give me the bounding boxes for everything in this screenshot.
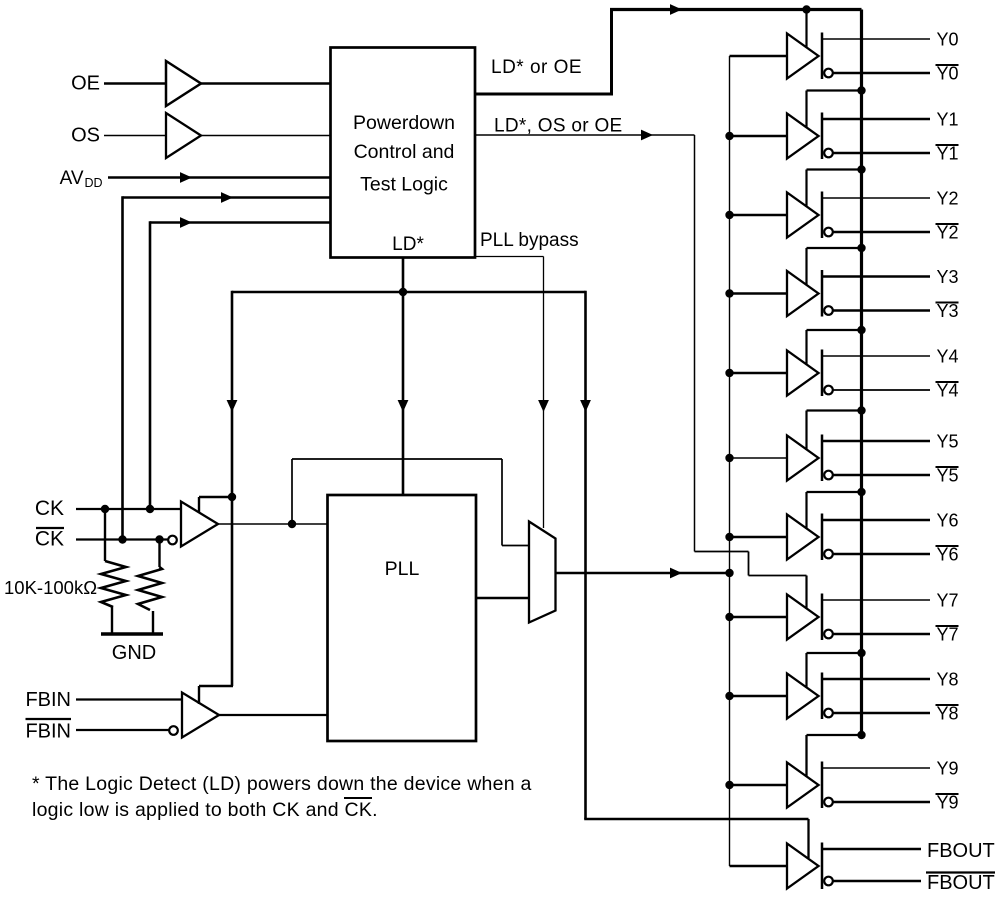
wire FBIN input: [76, 698, 182, 700]
junction mux output on distribution line: [725, 569, 733, 577]
wire LD* or OE from block to top rail: [474, 93, 612, 96]
junction LD* node: [399, 288, 407, 296]
junction Y6 enable on bus: [857, 488, 865, 496]
svg-text:Y0: Y0: [937, 64, 959, 84]
wire enable bus vertical LD* or OE: [860, 10, 863, 736]
output bar of Y1 driver: [821, 113, 824, 160]
output bar of Y6 driver: [821, 514, 824, 561]
wire Y6 complement output: [833, 553, 930, 556]
svg-text:PLL: PLL: [385, 558, 420, 580]
svg-text:Y2: Y2: [937, 189, 959, 209]
wire PLL bypass clock path to mux: [291, 459, 293, 524]
svg-text:Y0: Y0: [937, 30, 959, 50]
junction Y3 enable on bus: [857, 244, 865, 252]
wire Y1 complement output: [833, 152, 930, 155]
wire vertical from CK line up to Powerdown input: [149, 221, 152, 509]
junction Y1 input on distribution line: [725, 132, 733, 140]
svg-text:Y3: Y3: [937, 301, 959, 321]
svg-text:DD: DD: [85, 176, 103, 190]
wire OE input: [104, 82, 166, 85]
svg-text:FBIN: FBIN: [25, 689, 71, 711]
wire PLL output to mux: [476, 597, 529, 600]
svg-text:FBOUT: FBOUT: [927, 872, 995, 894]
wire Y8 enable elbow to bus: [805, 653, 807, 688]
svg-text:Powerdown: Powerdown: [353, 112, 455, 134]
wire Y9 input from distribution: [730, 784, 788, 787]
junction Y6 input on distribution line: [725, 533, 733, 541]
wire LD*, OS or OE vertical drop: [694, 135, 696, 552]
svg-text:FBIN: FBIN: [25, 721, 71, 743]
wire CK-sense line to Powerdown block: [150, 221, 330, 224]
junction Y3 input on distribution line: [725, 289, 733, 297]
junction Y7 input on distribution line: [725, 613, 733, 621]
wire Y2 input from distribution: [730, 214, 788, 217]
wire Y0 enable from top rail: [805, 10, 807, 49]
overbar for FBINbar: [26, 718, 72, 720]
wire Y9 enable from bus end: [807, 734, 863, 736]
svg-text:Y5: Y5: [937, 432, 959, 452]
bubble on Y1 complement output: [824, 149, 833, 158]
resistor R1 10K-100k pulldown on CK: [104, 509, 106, 561]
wire Y9 true output: [822, 767, 930, 769]
svg-text:Y9: Y9: [937, 759, 959, 779]
wire Y4 true output: [822, 355, 930, 357]
junction Y2 enable on bus: [857, 165, 865, 173]
wire Y3 complement output: [833, 309, 930, 312]
wire LD*, OS or OE from block: [474, 134, 695, 136]
junction CKbar to pulldown resistor R2: [155, 535, 163, 543]
svg-text:GND: GND: [112, 642, 156, 664]
wire Y2 complement output: [833, 231, 930, 234]
wire LD* left branch down to CK and FBIN buffers: [231, 291, 234, 686]
buffer Y5 output driver: [787, 436, 819, 481]
svg-text:logic low is applied to both C: logic low is applied to both CK and CK.: [32, 799, 378, 821]
svg-text:10K-100kΩ: 10K-100kΩ: [4, 577, 97, 598]
buffer FBIN differential input buffer: [182, 693, 219, 738]
wire Y5 input from distribution: [730, 457, 788, 459]
wire FBOUT input from distribution: [730, 865, 788, 868]
resistor R2 10K-100k pulldown on CKbar: [158, 540, 160, 568]
wire Y0 true output: [822, 38, 930, 40]
junction CK clock to bypass path: [288, 520, 296, 528]
wire Y4 complement output: [833, 389, 930, 391]
wire PLL bypass vertical to mux select: [543, 257, 545, 529]
svg-text:* The Logic Detect (LD) powers: * The Logic Detect (LD) powers down the …: [32, 773, 532, 795]
wire LD*, OS or OE jog toward Y7 enable: [695, 551, 749, 553]
wire clock distribution vertical: [729, 56, 731, 866]
wire PLL bypass from block: [474, 256, 544, 258]
svg-text:Y7: Y7: [937, 591, 959, 611]
junction Y4 input on distribution line: [725, 369, 733, 377]
svg-text:Y1: Y1: [937, 110, 959, 130]
bubble on Y0 complement output: [824, 69, 833, 78]
output bar of Y7 driver: [821, 594, 824, 641]
output bar of Y0 driver: [821, 33, 824, 80]
wire Y1 enable elbow to bus: [805, 91, 807, 129]
wire FBIN buffer enable elbow to LD*: [198, 686, 200, 704]
wire Y5 complement output: [833, 474, 930, 477]
junction Y5 enable on bus: [857, 406, 865, 414]
bubble on FBINbar input: [169, 726, 178, 735]
svg-text:Y9: Y9: [937, 793, 959, 813]
wire AVDD to Powerdown block: [108, 176, 330, 179]
svg-text:Y6: Y6: [937, 511, 959, 531]
buffer Y2 output driver: [787, 193, 819, 238]
junction Y1 enable on bus: [857, 86, 865, 94]
wire Y7 enable from LD*, OS or OE: [805, 576, 807, 610]
junction top rail to Y0 enable: [802, 5, 810, 13]
wire Y8 input from distribution: [730, 695, 788, 698]
output bar of Y3 driver: [821, 270, 824, 317]
wire OE buffer output to Powerdown block: [201, 82, 330, 85]
wire mux output to clock distribution: [556, 572, 730, 575]
svg-text:LD*: LD*: [392, 234, 424, 255]
wire Y3 true output: [822, 275, 930, 278]
wire Y2 enable elbow to bus: [805, 170, 807, 208]
bubble on Y5 complement output: [824, 471, 833, 480]
junction on CKbar line: [118, 535, 126, 543]
bubble on CKbar input: [168, 536, 177, 545]
junction Y9 enable at bus end: [857, 731, 865, 739]
bubble on Y7 complement output: [824, 630, 833, 639]
buffer Y0 output driver: [787, 34, 819, 79]
wire FBOUT true output: [822, 848, 921, 851]
wire vertical from CKbar line up to Powerdown input: [121, 196, 124, 539]
wire Y2 true output: [822, 197, 930, 199]
wire Y4 input from distribution: [730, 372, 788, 375]
wire Y6 input from distribution: [730, 536, 788, 539]
buffer OE input buffer: [166, 61, 201, 106]
wire LD* bottom run to FBOUT enable: [584, 818, 808, 821]
ground GND symbol: [101, 632, 163, 635]
svg-text:Y2: Y2: [937, 223, 959, 243]
svg-text:LD* or OE: LD* or OE: [491, 57, 582, 78]
block U1 Powerdown Control and Test Logic: [331, 48, 476, 258]
svg-text:Test Logic: Test Logic: [360, 174, 448, 196]
wire Y0 input from distribution: [730, 55, 788, 58]
junction CK to pulldown resistor R1: [101, 505, 109, 513]
block U2 PLL: [328, 495, 477, 741]
bubble on Y8 complement output: [824, 709, 833, 718]
bubble on FBOUT complement output: [824, 877, 833, 886]
wire Y5 enable elbow to bus: [805, 411, 807, 451]
wire Y6 enable elbow to bus: [805, 492, 807, 529]
mux PLL bypass multiplexer: [529, 522, 556, 623]
wire Y1 input from distribution: [730, 135, 788, 138]
wire OS buffer output to Powerdown block: [201, 135, 330, 137]
junction Y2 input on distribution line: [725, 211, 733, 219]
svg-text:CK: CK: [35, 497, 64, 520]
wire Y4 enable elbow to bus: [805, 330, 807, 365]
buffer Y6 output driver: [787, 515, 819, 560]
buffer Y4 output driver: [787, 351, 819, 396]
svg-text:OS: OS: [71, 125, 100, 147]
overbar for CKbar: [36, 527, 64, 529]
svg-text:AV: AV: [60, 168, 84, 189]
junction LD* to CK buffer enable: [228, 493, 236, 501]
output bar of Y4 driver: [821, 350, 824, 397]
wire CK buffer enable elbow to LD*: [198, 497, 200, 513]
svg-text:Y4: Y4: [937, 347, 959, 367]
wire Y8 complement output: [833, 712, 930, 715]
wire FBIN buffer output to PLL: [219, 714, 328, 716]
wire CKbar-sense line to Powerdown block: [123, 196, 331, 199]
svg-text:CK: CK: [35, 528, 64, 551]
buffer Y7 output driver: [787, 595, 819, 640]
wire Y0 complement output: [833, 72, 930, 75]
wire LD* horizontal rail: [232, 291, 586, 294]
bubble on Y4 complement output: [824, 386, 833, 395]
buffer OS input buffer: [166, 113, 201, 158]
svg-text:Y5: Y5: [937, 466, 959, 486]
output bar of Y9 driver: [821, 762, 824, 809]
svg-text:OE: OE: [71, 73, 100, 95]
output bar of Y8 driver: [821, 673, 824, 720]
wire Y7 input from distribution: [730, 616, 788, 619]
svg-text:Y1: Y1: [937, 144, 959, 164]
wire Y5 true output: [822, 440, 930, 443]
svg-text:Y3: Y3: [937, 267, 959, 287]
junction Y8 enable on bus: [857, 649, 865, 657]
junction Y9 input on distribution line: [725, 781, 733, 789]
wire Y8 true output: [822, 678, 930, 681]
bubble on Y6 complement output: [824, 550, 833, 559]
wire Y1 true output: [822, 118, 930, 121]
wire top rail LD* or OE: [610, 8, 862, 11]
buffer Y9 output driver: [787, 763, 819, 808]
wire Y6 true output: [822, 519, 930, 522]
bubble on Y2 complement output: [824, 228, 833, 237]
wire Y7 true output: [822, 599, 930, 601]
junction Y4 enable on bus: [857, 326, 865, 334]
output bar of Y5 driver: [821, 435, 824, 482]
wire Y7 complement output: [833, 633, 930, 636]
buffer Y8 output driver: [787, 674, 819, 719]
junction Y5 input on distribution line: [725, 454, 733, 462]
svg-text:Y7: Y7: [937, 625, 959, 645]
wire CK buffer output to PLL: [218, 523, 328, 525]
buffer FBOUT output driver: [787, 844, 819, 889]
junction on CK line: [146, 505, 154, 513]
bubble on Y9 complement output: [824, 798, 833, 807]
svg-text:LD*, OS or OE: LD*, OS or OE: [494, 116, 623, 137]
bubble on Y3 complement output: [824, 306, 833, 315]
buffer Y3 output driver: [787, 271, 819, 316]
svg-text:FBOUT: FBOUT: [927, 840, 995, 862]
svg-text:Y6: Y6: [937, 545, 959, 565]
wire LD* right branch down to FBOUT: [584, 291, 587, 819]
junction Y8 input on distribution line: [725, 692, 733, 700]
overbar on CK in footnote: [344, 797, 372, 799]
output bar of FBOUT driver: [821, 843, 824, 890]
buffer Y1 output driver: [787, 114, 819, 159]
svg-text:Control and: Control and: [354, 141, 455, 163]
wire OS input: [104, 135, 166, 137]
net LD* from block bottom: [402, 257, 405, 495]
output bar of Y2 driver: [821, 192, 824, 239]
wire CKbar input: [76, 538, 169, 540]
svg-text:Y8: Y8: [937, 670, 959, 690]
buffer CK differential input buffer: [181, 502, 218, 547]
svg-text:Y8: Y8: [937, 704, 959, 724]
wire FBINbar input: [76, 729, 170, 731]
wire Y9 complement output: [833, 801, 930, 804]
wire Y3 enable elbow to bus: [805, 248, 807, 286]
wire FBOUT complement output: [833, 880, 921, 883]
wire Y3 input from distribution: [730, 292, 788, 295]
svg-text:PLL bypass: PLL bypass: [480, 230, 579, 251]
wire CK input: [76, 508, 181, 510]
svg-text:Y4: Y4: [937, 381, 959, 401]
